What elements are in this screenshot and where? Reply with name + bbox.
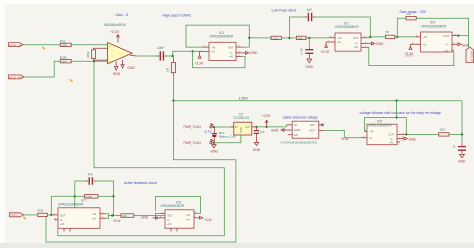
ERC marker 1 <box>42 47 45 49</box>
junction at +In wire <box>192 50 194 52</box>
PWR_FLAG 2 <box>184 139 214 145</box>
wire ECG_LA to R30 <box>23 44 60 46</box>
svg-text:GND: GND <box>113 72 121 76</box>
svg-text:+IN: +IN <box>229 55 233 59</box>
svg-text:OPA333AIDBVR: OPA333AIDBVR <box>368 123 392 127</box>
svg-text:1.65V: 1.65V <box>239 96 249 100</box>
IC1 feedback loop top <box>186 25 249 47</box>
wire IC5 out to R9 <box>406 133 439 135</box>
svg-text:Gain stage : 200: Gain stage : 200 <box>400 10 426 14</box>
pin numbers IC8 <box>160 212 197 219</box>
svg-text:TC1262-33: TC1262-33 <box>233 116 249 120</box>
pin numbers IC7 <box>54 212 105 220</box>
wire R8 to out loop <box>416 18 468 35</box>
wire R7 to IC4 <box>395 36 415 38</box>
svg-text:V−: V− <box>391 137 395 141</box>
svg-text:PWR_FLAG: PWR_FLAG <box>184 141 202 145</box>
resistor R40 <box>60 56 71 64</box>
junction RC loop right <box>112 195 114 197</box>
GND flag at IC4 <box>455 43 469 48</box>
svg-text:1u: 1u <box>452 144 456 148</box>
svg-text:V−: V− <box>60 218 64 222</box>
svg-text:+In: +In <box>92 216 96 220</box>
wire R6 to IC2 <box>306 37 329 39</box>
hierarchical label OUT <box>10 213 24 217</box>
svg-text:+In: +In <box>186 218 190 222</box>
svg-text:+3.3V4CM1114AD010372G: +3.3V4CM1114AD010372G <box>280 141 318 145</box>
svg-text:−IN: −IN <box>337 36 341 40</box>
svg-text:High pass 0.05Hz: High pass 0.05Hz <box>163 14 192 18</box>
svg-text:GND: GND <box>141 216 149 220</box>
wire cap to IC2 out loop <box>315 17 370 37</box>
hierarchical label ECG_RA <box>9 75 25 79</box>
feedback loop left vertical <box>74 181 76 208</box>
svg-text:GND: GND <box>458 159 466 163</box>
resistor R30 <box>60 40 71 48</box>
svg-text:OUT: OUT <box>60 213 66 217</box>
junction IC4 feedback <box>396 36 398 38</box>
GND flag at IC8 left <box>141 216 159 220</box>
svg-text:GND: GND <box>376 42 384 46</box>
svg-text:−IN: −IN <box>186 213 190 217</box>
svg-text:PWR_FLAG: PWR_FLAG <box>184 125 202 129</box>
svg-text:10nF: 10nF <box>157 46 164 50</box>
IC1 lower reference loop <box>193 51 245 67</box>
resistor R10 feedback <box>75 195 114 200</box>
GND flag at IC2 <box>369 42 384 46</box>
svg-text:Low Pass 30Hz: Low Pass 30Hz <box>272 9 297 13</box>
svg-text:+IN: +IN <box>60 222 64 226</box>
resistor R5 <box>271 36 281 40</box>
svg-text:GND: GND <box>250 51 258 55</box>
svg-text:+IN: +IN <box>444 49 448 53</box>
wire PWR_FLAG1 to regulator IN <box>214 126 234 128</box>
wire IC1 +In from node wire <box>193 50 203 52</box>
wire rail drop to relay loop <box>46 101 236 242</box>
wire IC2 out to R7 <box>368 36 386 39</box>
svg-text:V−: V− <box>167 218 171 222</box>
wire cap to loop right <box>96 180 114 182</box>
connector J1 output tag <box>466 47 474 63</box>
wire R5 to R6 <box>281 37 296 39</box>
svg-text:+3.3V: +3.3V <box>110 30 120 34</box>
wire R11 to GND flag and IC8 <box>134 215 165 217</box>
svg-text:GND: GND <box>211 150 219 154</box>
svg-text:OUT: OUT <box>11 213 18 217</box>
pin numbers IC2 <box>328 36 368 48</box>
wire IC4 out down to connector <box>468 36 470 47</box>
svg-text:+IN: +IN <box>354 45 358 49</box>
resistor R2 to 1.65V rail <box>166 57 176 76</box>
+3.3V power at IC1 <box>195 51 205 65</box>
svg-text:OUT: OUT <box>228 45 234 49</box>
svg-text:+3.3V: +3.3V <box>195 61 205 65</box>
svg-text:OUT: OUT <box>167 214 173 218</box>
wire ECG_RA bend to R40 <box>24 61 60 77</box>
svg-text:1M: 1M <box>407 12 412 16</box>
wire label to RN1 <box>24 214 38 216</box>
svg-text:N/C: N/C <box>310 123 315 127</box>
resistor R8 <box>406 12 416 20</box>
wire REF OUT to follower V+ <box>323 130 361 137</box>
svg-text:180: 180 <box>62 44 67 48</box>
junction RC loop left <box>74 195 76 197</box>
resistor R7 <box>385 30 395 39</box>
wire node A up to IC1 +In <box>173 51 193 56</box>
junction input node <box>50 214 52 216</box>
junction cap C5 <box>255 126 257 128</box>
svg-text:IN: IN <box>235 125 238 129</box>
svg-text:200k: 200k <box>86 51 90 58</box>
wire IC7 out pins to node <box>106 214 121 216</box>
feedback loop cap branch <box>75 180 88 182</box>
N/C cross <box>321 124 323 126</box>
svg-text:+3.3V: +3.3V <box>262 114 272 118</box>
capacitor C5 1uF <box>254 127 265 137</box>
op-amp IC1 OPA333 box <box>200 31 243 61</box>
svg-text:1uF: 1uF <box>260 130 265 134</box>
svg-text:+In: +In <box>423 42 427 46</box>
resistor RG gain-set vertical <box>86 48 99 60</box>
svg-text:220k: 220k <box>86 195 93 199</box>
svg-text:1M: 1M <box>166 67 170 72</box>
GND symbol below opamp (right) <box>121 60 136 70</box>
feedback loop right vertical <box>113 181 115 216</box>
wire 1.65V rail <box>173 100 462 102</box>
op-amp IC8 OPA333 box <box>159 201 198 232</box>
junction follower input <box>395 100 397 102</box>
svg-text:+3.3v: +3.3v <box>341 137 349 141</box>
pin numbers IC1 <box>201 46 241 57</box>
svg-text:voltage follower with low pass: voltage follower with low pass for the r… <box>360 111 441 115</box>
+3.3v arrow at IC8 right <box>197 216 213 222</box>
svg-text:INA350xxDGK: INA350xxDGK <box>104 23 127 27</box>
wire REF in <box>286 125 288 127</box>
svg-text:GND: GND <box>294 128 300 132</box>
svg-text:+IN: +IN <box>389 141 393 145</box>
svg-text:ECG_LA: ECG_LA <box>10 43 23 47</box>
svg-text:GND: GND <box>271 129 279 133</box>
junction battery - <box>213 142 215 144</box>
svg-text:+IN: +IN <box>167 222 171 226</box>
svg-text:V−: V− <box>355 41 359 45</box>
follower feedback loop <box>364 118 406 135</box>
wire R2 down to rail junction <box>172 77 174 101</box>
junction RG/feedback <box>93 60 95 62</box>
op-amp U1 INA350 triangle <box>104 23 132 64</box>
svg-text:−IN: −IN <box>92 212 96 216</box>
op-amp IC5 OPA333 box <box>362 120 407 145</box>
pin numbers IC4 <box>412 34 457 51</box>
svg-text:OUT: OUT <box>389 132 395 136</box>
hierarchical label ECG_LA <box>9 43 24 47</box>
svg-text:GND: GND <box>128 66 136 70</box>
+3.3V power at IC4 <box>405 44 415 56</box>
svg-text:Active feedback circuit: Active feedback circuit <box>124 181 157 185</box>
wire IC8 left pin from R11 node <box>156 213 161 215</box>
IC4 feedback loop with R8 <box>397 18 406 37</box>
svg-text:Gain - 5: Gain - 5 <box>116 13 129 17</box>
wire regulator OUT <box>256 126 287 128</box>
svg-text:50: 50 <box>386 30 390 34</box>
svg-text:GND: GND <box>253 148 261 152</box>
wire input node up to RC loop <box>51 196 75 215</box>
svg-text:−IN: −IN <box>369 130 373 134</box>
voltage regulator U7 TC1262-33 <box>231 112 256 135</box>
svg-text:16k: 16k <box>298 37 303 41</box>
svg-text:GND: GND <box>239 127 243 133</box>
junction LP cap branch <box>288 37 290 39</box>
svg-text:−IN: −IN <box>423 35 427 39</box>
+3.3V power symbol above opamp <box>110 30 120 42</box>
wire RN1 to IC7 <box>47 214 52 216</box>
junction battery + <box>213 126 215 128</box>
svg-text:RN1: RN1 <box>38 208 44 212</box>
svg-text:+: + <box>109 44 111 48</box>
svg-text:+3.3V: +3.3V <box>405 52 415 56</box>
GND below C5 <box>253 137 261 152</box>
wire R30 to opamp <box>71 44 107 46</box>
capacitor C2 1uF <box>305 8 315 21</box>
junction RC node <box>461 133 463 135</box>
wire C1 to node A <box>167 55 173 57</box>
GND at REF chip <box>271 129 287 133</box>
main wire IC1 to LP stage <box>249 37 271 39</box>
junction rail / HP resistor <box>172 100 174 102</box>
junction loop/rail <box>396 117 398 119</box>
svg-text:OPA2333AIDBVR: OPA2333AIDBVR <box>58 202 84 206</box>
junction IC4 out <box>457 34 459 36</box>
GND below C3 <box>306 56 314 70</box>
svg-text:GND: GND <box>409 138 417 142</box>
opamp pins 1,8 stubs <box>99 48 108 60</box>
junction IC1 out <box>248 37 250 39</box>
svg-text:OUT: OUT <box>353 36 359 40</box>
svg-text:+3.3v: +3.3v <box>204 218 212 222</box>
GND below battery <box>211 143 219 154</box>
op-amp IC2 OPA333 box <box>326 22 369 52</box>
pin numbers IC5 <box>363 130 405 143</box>
svg-text:OPA333AIDBVR: OPA333AIDBVR <box>210 35 234 39</box>
svg-text:1uF: 1uF <box>307 8 313 12</box>
svg-text:GND: GND <box>306 65 314 69</box>
resistor R9 <box>439 128 449 136</box>
svg-text:−: − <box>109 59 111 63</box>
svg-text:+In: +In <box>337 40 341 44</box>
svg-text:47u: 47u <box>88 173 94 177</box>
wire down to 0.1uF cap <box>308 38 310 48</box>
junction IC7 out node <box>111 214 113 216</box>
wire rail to follower loop <box>396 101 398 118</box>
LP feedback cap branch up <box>289 17 306 38</box>
svg-text:V−: V− <box>446 42 450 46</box>
junction IC2 out <box>369 36 371 38</box>
junction IC5 out <box>405 133 407 135</box>
GND flag at IC1 V- area <box>243 51 258 55</box>
svg-text:+3.3V: +3.3V <box>321 50 331 54</box>
voltage reference U6 <box>280 121 323 144</box>
svg-text:V−: V− <box>230 51 234 55</box>
node A junction <box>172 55 174 57</box>
GND below C6 <box>458 153 466 164</box>
resistor R11 <box>121 214 134 218</box>
GND flag at IC5 <box>402 137 417 142</box>
svg-text:0.1uF: 0.1uF <box>299 48 303 55</box>
svg-text:+In: +In <box>211 50 215 54</box>
wire rail right drop <box>461 101 463 144</box>
opamp output pin 5 <box>130 54 136 57</box>
svg-text:OUT: OUT <box>309 129 315 133</box>
svg-text:ECG_O: ECG_O <box>470 52 474 63</box>
svg-text:+3.3v: +3.3v <box>113 219 121 223</box>
battery BT1 <box>212 127 236 143</box>
PWR_FLAG 1 <box>184 124 214 130</box>
svg-text:Battery_Cell: Battery_Cell <box>219 135 236 139</box>
svg-text:180: 180 <box>62 60 67 64</box>
wire opamp out to C1 <box>137 55 160 57</box>
+3.3V power at regulator out <box>262 114 272 128</box>
capacitor C1 10nF <box>157 46 167 61</box>
junction 0.1uF branch <box>308 37 310 39</box>
capacitor C7 47u <box>86 173 96 185</box>
svg-text:OUT: OUT <box>444 34 450 38</box>
wire long feedback drop from RG node <box>58 61 225 236</box>
wire battery - to regulator GND pin <box>214 135 241 143</box>
capacitor C3 0.1uF <box>299 48 313 56</box>
svg-text:ECG_RA: ECG_RA <box>10 75 24 79</box>
svg-text:10k: 10k <box>122 214 127 218</box>
resistor RN1 <box>38 208 48 216</box>
capacitor C6 1uF <box>452 144 466 153</box>
ERC marker 3 <box>23 217 26 219</box>
+3.3V power at IC2 <box>321 42 331 54</box>
op-amp IC4 OPA333 box <box>411 20 459 53</box>
svg-text:OPA333AIDBVR: OPA333AIDBVR <box>161 204 185 208</box>
svg-text:EN: EN <box>294 133 298 137</box>
svg-text:OPA2333AIDBVR: OPA2333AIDBVR <box>421 24 447 28</box>
svg-text:3.7V: 3.7V <box>205 130 213 134</box>
svg-text:IN: IN <box>294 123 297 127</box>
wire R40 to opamp <box>71 60 107 62</box>
svg-text:1.2k: 1.2k <box>272 37 278 41</box>
IC2 ref wire down-right to IC4 <box>369 47 454 65</box>
svg-text:OPA333AIDBVR: OPA333AIDBVR <box>335 25 359 29</box>
wire R9 to RC node <box>449 133 462 135</box>
IC8 feedback loop <box>156 196 201 213</box>
svg-text:−IN: −IN <box>211 45 215 49</box>
resistor R6 <box>297 36 307 40</box>
GND symbol below opamp (left) <box>113 62 121 77</box>
svg-text:stable reference voltage: stable reference voltage <box>283 116 318 120</box>
svg-text:V+: V+ <box>369 136 373 140</box>
op-amp IC7 OPA2333 box <box>53 199 106 232</box>
svg-text:100: 100 <box>440 128 445 132</box>
svg-text:OUT: OUT <box>245 125 251 129</box>
ERC marker 2 <box>70 79 73 81</box>
